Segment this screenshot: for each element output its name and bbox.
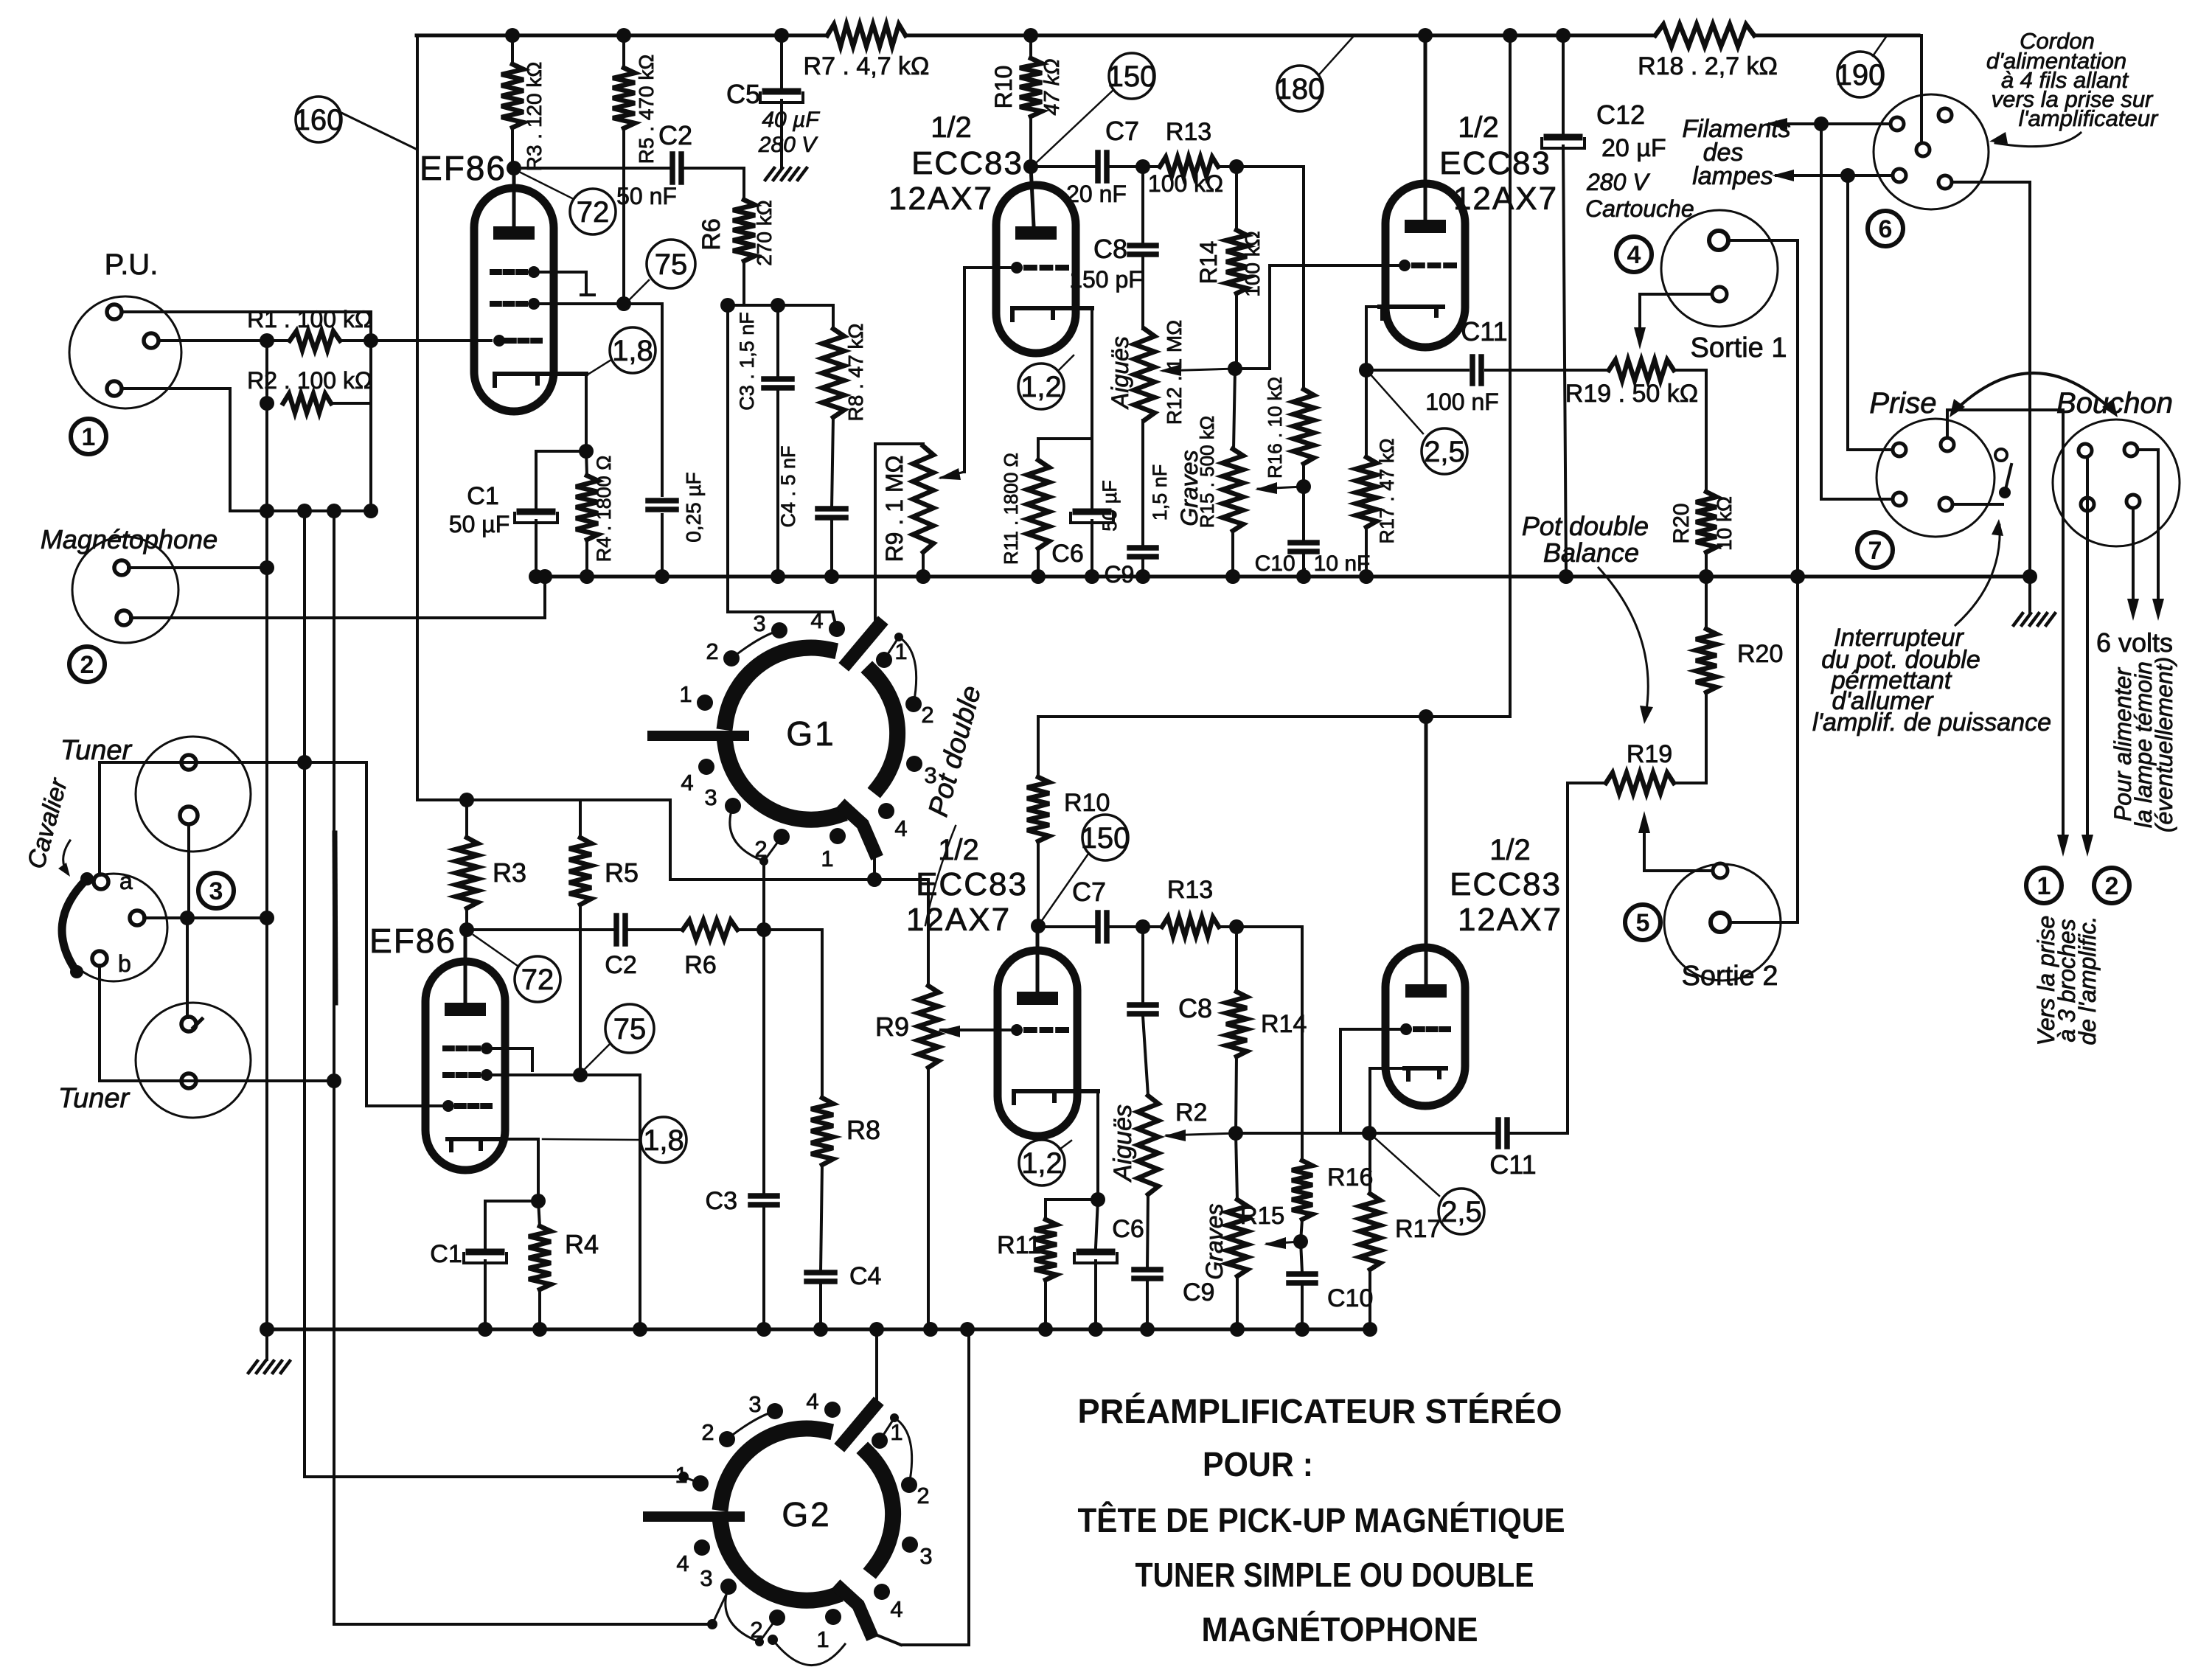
svg-text:C10: C10 <box>1327 1284 1373 1312</box>
svg-text:R10: R10 <box>1064 789 1110 817</box>
svg-text:Graves: Graves <box>1201 1203 1228 1279</box>
svg-text:280 V: 280 V <box>758 133 818 157</box>
svg-text:R15: R15 <box>1240 1202 1285 1229</box>
svg-text:1: 1 <box>2037 872 2051 900</box>
svg-text:2,5: 2,5 <box>1441 1196 1482 1228</box>
svg-text:R17: R17 <box>1395 1215 1441 1243</box>
svg-text:100 nF: 100 nF <box>1425 389 1499 415</box>
svg-text:R11 . 1800 Ω: R11 . 1800 Ω <box>1000 453 1022 565</box>
svg-text:1: 1 <box>82 423 96 451</box>
svg-text:R14: R14 <box>1195 241 1222 285</box>
svg-text:Sortie 1: Sortie 1 <box>1691 333 1787 363</box>
svg-text:160: 160 <box>294 104 344 136</box>
svg-text:C1: C1 <box>467 482 498 510</box>
svg-text:12AX7: 12AX7 <box>1453 181 1558 217</box>
svg-text:Sortie 2: Sortie 2 <box>1682 961 1778 992</box>
svg-text:150 pF: 150 pF <box>1069 266 1143 293</box>
svg-text:1,5 nF: 1,5 nF <box>1149 464 1171 521</box>
svg-text:de l'amplific.: de l'amplific. <box>2074 916 2101 1045</box>
svg-text:R16: R16 <box>1327 1163 1373 1191</box>
svg-text:C4 . 5 nF: C4 . 5 nF <box>777 445 799 527</box>
svg-text:R5: R5 <box>605 857 639 888</box>
svg-text:4: 4 <box>681 770 693 796</box>
svg-text:C5: C5 <box>726 79 760 109</box>
svg-text:180: 180 <box>1276 73 1325 105</box>
svg-text:72: 72 <box>577 196 610 229</box>
svg-text:3: 3 <box>919 1543 932 1569</box>
svg-text:2: 2 <box>706 638 718 664</box>
svg-text:R4 . 1800 Ω: R4 . 1800 Ω <box>593 456 615 563</box>
svg-text:ECC83: ECC83 <box>916 866 1028 902</box>
svg-text:R11: R11 <box>997 1231 1041 1259</box>
svg-text:C6: C6 <box>1112 1215 1144 1243</box>
svg-text:R5 . 470 kΩ: R5 . 470 kΩ <box>635 55 658 164</box>
svg-text:TÊTE DE PICK-UP MAGNÉTIQUE: TÊTE DE PICK-UP MAGNÉTIQUE <box>1078 1501 1565 1539</box>
svg-text:12AX7: 12AX7 <box>888 181 993 217</box>
svg-text:4: 4 <box>810 608 823 633</box>
svg-text:12AX7: 12AX7 <box>1458 902 1562 938</box>
svg-text:R20: R20 <box>1669 503 1694 543</box>
svg-text:R10: R10 <box>990 66 1017 109</box>
svg-text:1: 1 <box>816 1626 829 1652</box>
svg-text:R2: R2 <box>1175 1099 1207 1127</box>
svg-text:C8: C8 <box>1178 993 1212 1023</box>
svg-text:G1: G1 <box>786 714 835 753</box>
svg-text:100 kΩ: 100 kΩ <box>1148 170 1223 197</box>
svg-text:12AX7: 12AX7 <box>906 902 1011 938</box>
svg-text:ECC83: ECC83 <box>1450 866 1562 902</box>
svg-text:1/2: 1/2 <box>931 111 972 144</box>
svg-text:EF86: EF86 <box>369 922 456 960</box>
svg-text:R8 . 47 kΩ: R8 . 47 kΩ <box>844 324 867 422</box>
svg-text:1/2: 1/2 <box>1489 834 1531 866</box>
svg-text:R17 . 47 kΩ: R17 . 47 kΩ <box>1376 438 1398 543</box>
svg-text:6 volts: 6 volts <box>2096 627 2173 658</box>
svg-text:R3 . 120 kΩ: R3 . 120 kΩ <box>523 62 546 172</box>
svg-text:C7: C7 <box>1105 116 1139 146</box>
svg-text:C7: C7 <box>1072 877 1106 907</box>
svg-text:b: b <box>118 950 131 977</box>
svg-text:C2: C2 <box>658 120 692 150</box>
svg-text:1,8: 1,8 <box>643 1124 684 1157</box>
svg-text:47 kΩ: 47 kΩ <box>1040 59 1064 116</box>
svg-text:50 nF: 50 nF <box>616 183 677 209</box>
svg-text:3: 3 <box>700 1565 712 1591</box>
svg-text:2: 2 <box>701 1419 714 1445</box>
svg-text:Balance: Balance <box>1543 537 1639 568</box>
svg-text:MAGNÉTOPHONE: MAGNÉTOPHONE <box>1202 1610 1478 1649</box>
svg-text:100 kΩ: 100 kΩ <box>1241 231 1264 296</box>
svg-text:50 µF: 50 µF <box>1099 480 1121 532</box>
svg-text:P.U.: P.U. <box>105 248 159 281</box>
svg-text:2: 2 <box>2105 872 2119 900</box>
svg-text:4: 4 <box>1627 241 1641 269</box>
svg-text:l'amplificateur: l'amplificateur <box>2019 105 2159 131</box>
svg-text:R15 . 500 kΩ: R15 . 500 kΩ <box>1196 416 1218 528</box>
svg-text:R19: R19 <box>1627 740 1672 768</box>
svg-text:C3 . 1,5 nF: C3 . 1,5 nF <box>736 312 758 411</box>
svg-text:4: 4 <box>806 1388 818 1414</box>
svg-text:R4: R4 <box>565 1229 599 1259</box>
svg-text:C3: C3 <box>706 1187 737 1215</box>
svg-text:C11: C11 <box>1489 1149 1536 1180</box>
svg-text:G2: G2 <box>782 1495 831 1534</box>
svg-text:7: 7 <box>1868 537 1882 565</box>
svg-text:R1 . 100 kΩ: R1 . 100 kΩ <box>247 306 372 333</box>
svg-text:Prise: Prise <box>1869 387 1936 420</box>
svg-text:3: 3 <box>748 1391 761 1417</box>
svg-text:1: 1 <box>821 846 833 871</box>
svg-text:0,25 µF: 0,25 µF <box>682 472 705 543</box>
svg-text:POUR :: POUR : <box>1203 1445 1313 1483</box>
svg-text:280 V: 280 V <box>1586 169 1650 195</box>
svg-text:R16 . 10 kΩ: R16 . 10 kΩ <box>1264 377 1286 478</box>
svg-text:C4: C4 <box>849 1262 881 1290</box>
svg-text:R7 . 4,7 kΩ: R7 . 4,7 kΩ <box>804 52 930 80</box>
svg-text:ECC83: ECC83 <box>1439 145 1551 181</box>
svg-text:Magnétophone: Magnétophone <box>41 524 218 554</box>
svg-text:(éventuellement): (éventuellement) <box>2151 657 2177 832</box>
svg-text:Cartouche: Cartouche <box>1585 195 1694 222</box>
svg-text:72: 72 <box>521 964 554 996</box>
svg-text:R19 . 50 kΩ: R19 . 50 kΩ <box>1565 380 1698 408</box>
svg-text:270 kΩ: 270 kΩ <box>753 200 776 265</box>
svg-text:4: 4 <box>676 1551 689 1576</box>
svg-text:2,5: 2,5 <box>1424 436 1465 468</box>
svg-text:2: 2 <box>80 651 94 679</box>
svg-text:R6: R6 <box>698 218 726 250</box>
svg-text:EF86: EF86 <box>420 149 507 187</box>
svg-text:ECC83: ECC83 <box>911 145 1023 181</box>
svg-text:Tuner: Tuner <box>58 1083 131 1114</box>
svg-text:R13: R13 <box>1167 876 1213 904</box>
svg-text:R18 . 2,7 kΩ: R18 . 2,7 kΩ <box>1638 52 1778 80</box>
svg-text:1,2: 1,2 <box>1020 371 1062 403</box>
svg-text:4: 4 <box>890 1596 902 1622</box>
svg-text:R20: R20 <box>1737 640 1783 668</box>
svg-text:190: 190 <box>1836 59 1885 91</box>
svg-text:R9: R9 <box>875 1012 909 1042</box>
svg-text:TUNER SIMPLE OU DOUBLE: TUNER SIMPLE OU DOUBLE <box>1135 1556 1534 1594</box>
svg-text:2: 2 <box>917 1483 929 1508</box>
svg-text:C9: C9 <box>1183 1278 1214 1306</box>
svg-text:3: 3 <box>753 610 765 636</box>
svg-text:10 kΩ: 10 kΩ <box>1713 496 1736 551</box>
svg-text:C9: C9 <box>1105 561 1135 588</box>
svg-text:1,2: 1,2 <box>1021 1147 1062 1180</box>
svg-text:2: 2 <box>921 702 933 728</box>
svg-text:150: 150 <box>1107 60 1157 93</box>
svg-text:C2: C2 <box>605 951 636 979</box>
svg-text:3: 3 <box>704 784 717 810</box>
svg-text:C10 . 10 nF: C10 . 10 nF <box>1255 551 1371 576</box>
svg-text:150: 150 <box>1081 822 1130 855</box>
svg-text:6: 6 <box>1879 215 1893 243</box>
svg-text:R13: R13 <box>1166 118 1211 146</box>
svg-text:1/2: 1/2 <box>938 834 979 866</box>
svg-text:5: 5 <box>1636 909 1650 937</box>
svg-text:50 µF: 50 µF <box>449 511 509 537</box>
svg-text:Pot double: Pot double <box>1522 511 1649 541</box>
svg-text:PRÉAMPLIFICATEUR STÉRÉO: PRÉAMPLIFICATEUR STÉRÉO <box>1078 1392 1562 1430</box>
svg-text:20 µF: 20 µF <box>1601 134 1666 162</box>
svg-text:1: 1 <box>679 681 692 707</box>
svg-text:3: 3 <box>209 877 223 905</box>
svg-text:lampes: lampes <box>1692 162 1773 190</box>
svg-text:l'amplif. de puissance: l'amplif. de puissance <box>1812 709 2051 737</box>
svg-text:R14: R14 <box>1261 1010 1307 1038</box>
svg-text:R6: R6 <box>684 951 716 979</box>
svg-text:1/2: 1/2 <box>1458 111 1499 144</box>
svg-text:75: 75 <box>613 1013 647 1045</box>
svg-text:C1: C1 <box>430 1240 462 1268</box>
svg-text:Aiguës: Aiguës <box>1109 1104 1137 1183</box>
svg-text:R8: R8 <box>846 1115 880 1145</box>
svg-text:C11: C11 <box>1461 316 1507 347</box>
svg-text:R3: R3 <box>493 857 526 888</box>
svg-text:75: 75 <box>655 248 688 281</box>
svg-text:a: a <box>119 868 133 894</box>
svg-text:C8: C8 <box>1093 234 1127 264</box>
svg-text:1,8: 1,8 <box>612 335 653 367</box>
svg-text:Aiguës: Aiguës <box>1107 336 1133 410</box>
svg-text:40 µF: 40 µF <box>762 108 820 132</box>
svg-text:C6: C6 <box>1051 540 1083 568</box>
svg-text:4: 4 <box>894 815 907 841</box>
svg-text:20 nF: 20 nF <box>1066 181 1127 207</box>
svg-text:R9 . 1 MΩ: R9 . 1 MΩ <box>881 456 908 563</box>
svg-text:C12: C12 <box>1596 100 1645 130</box>
